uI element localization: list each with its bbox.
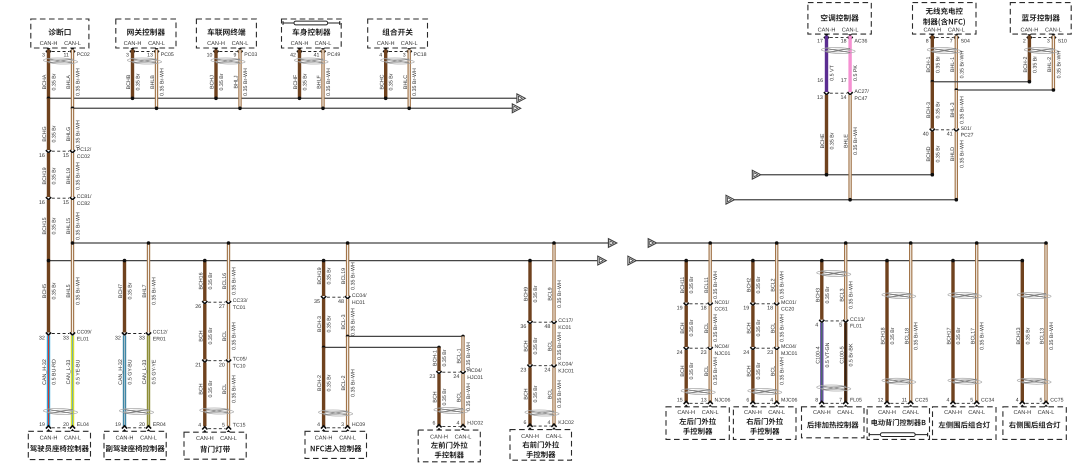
svg-text:0.35 Br: 0.35 Br: [689, 276, 695, 293]
svg-text:0.35 Br-WH: 0.35 Br-WH: [243, 68, 249, 96]
wire CAN-H bus (mid-right): [636, 260, 1022, 262]
label BHLB 0.35 Br-WH: [150, 68, 165, 96]
label BCL 0.35 Br-WH: [770, 357, 785, 385]
svg-text:7: 7: [950, 39, 953, 45]
svg-text:41: 41: [314, 53, 320, 59]
svg-text:BCH15: BCH15: [42, 217, 48, 234]
label BHLF 0.35 Br-WH: [317, 68, 332, 96]
svg-text:KJC02: KJC02: [558, 420, 574, 426]
connector NC01//CC61: [677, 300, 730, 313]
svg-text:5: 5: [222, 423, 225, 429]
junction BHLE/bus: [848, 198, 852, 202]
svg-text:4: 4: [317, 422, 320, 428]
svg-text:0.35 Br: 0.35 Br: [825, 286, 831, 303]
svg-text:5: 5: [1040, 397, 1043, 403]
wire BCH (MC): [751, 306, 754, 347]
svg-text:PC18: PC18: [414, 52, 427, 58]
svg-text:CAN-L: CAN-L: [948, 27, 965, 33]
wire BCL (KC): [552, 324, 555, 365]
svg-text:CAN-H: CAN-H: [196, 436, 214, 442]
wire BCH (KC): [528, 324, 531, 365]
wire BCH-2: [322, 347, 325, 426]
svg-text:0.35 Br-WH: 0.35 Br-WH: [326, 68, 332, 96]
svg-text:0.35 Br: 0.35 Br: [533, 337, 539, 354]
svg-text:CAN_L-33: CAN_L-33: [66, 360, 72, 385]
svg-text:BCH: BCH: [680, 322, 686, 333]
label BHL19 0.35 Br-WH: [66, 162, 81, 190]
wire BCH-3: [322, 299, 325, 347]
svg-text:4: 4: [379, 53, 382, 59]
svg-text:CAN-H: CAN-H: [315, 435, 333, 441]
wire BCHJ: [214, 50, 217, 99]
svg-text:TC05/: TC05/: [233, 357, 248, 363]
twisted pair above FL05: [817, 385, 851, 391]
label BHL7 0.35 Br-WH: [142, 277, 157, 305]
svg-text:0.35 Br-WH: 0.35 Br-WH: [76, 212, 82, 240]
wire BHL-3 (S): [955, 90, 958, 129]
box R1 左后门外拉手控制器: [666, 407, 729, 440]
wire BCH-1: [437, 347, 440, 371]
wire BCHF: [298, 50, 301, 99]
box U6 空调控制器: [808, 3, 871, 34]
svg-text:CAN-H: CAN-H: [377, 41, 395, 47]
svg-text:CAN-H: CAN-H: [744, 410, 762, 416]
svg-text:BCHG: BCHG: [42, 126, 48, 141]
connector PC12//CC02: [39, 147, 92, 160]
label BCH9 0.35 Br: [524, 285, 539, 302]
label BCH 0.35 Br: [198, 327, 213, 344]
label BCHG 0.35 Br: [42, 125, 57, 142]
wire BHL19: [71, 153, 74, 197]
svg-text:3: 3: [403, 53, 406, 59]
svg-text:0.35 Br: 0.35 Br: [533, 285, 539, 302]
svg-text:0.35 Br-WH: 0.35 Br-WH: [713, 314, 719, 342]
svg-text:MJC06: MJC06: [781, 397, 798, 403]
svg-text:6: 6: [433, 421, 436, 427]
svg-text:13: 13: [147, 53, 153, 59]
svg-text:0.35 Br: 0.35 Br: [52, 217, 58, 234]
connector AC27//PC47: [817, 89, 869, 102]
label BCH-3 0.35 Br: [926, 101, 941, 118]
junction BCL17/bus: [975, 241, 979, 245]
connector KJC02: [524, 420, 574, 429]
junction BCHC/CAN-H bus: [384, 97, 388, 101]
svg-text:23: 23: [767, 350, 773, 356]
svg-text:0.35 Br: 0.35 Br: [327, 374, 333, 391]
svg-text:BCL18: BCL18: [904, 328, 910, 344]
twisted pair below bus CC25: [882, 293, 916, 299]
junction BCHB/CAN-H bus: [131, 97, 135, 101]
label BCH-1 0.35 Br: [926, 56, 941, 73]
twisted pair at PC49: [294, 58, 328, 64]
wire BCH19: [47, 153, 50, 197]
junction BCH9/bus: [528, 259, 532, 263]
svg-text:BCH19: BCH19: [42, 167, 48, 184]
box B6 右前门外拉手控制器: [510, 430, 572, 461]
svg-text:BCL3: BCL3: [839, 288, 845, 301]
svg-text:BCL9: BCL9: [548, 287, 554, 300]
svg-text:23: 23: [429, 374, 435, 380]
svg-text:EL01: EL01: [77, 336, 89, 342]
svg-text:CAN-L: CAN-L: [842, 27, 859, 33]
svg-text:24: 24: [677, 350, 683, 356]
label BCL-2 0.35 Br-WH: [341, 369, 356, 397]
label BHLE 0.35 Br-WH: [844, 127, 859, 155]
connector ER04: [115, 422, 166, 431]
wire BCH-3 (S): [931, 82, 934, 129]
svg-text:0.5 BU-RD: 0.5 BU-RD: [52, 359, 58, 385]
svg-text:CAN-L: CAN-L: [64, 41, 81, 47]
svg-text:CAN-H: CAN-H: [207, 41, 225, 47]
svg-text:BCL: BCL: [548, 389, 554, 399]
wire BCHA: [47, 50, 50, 99]
wire BCHC: [384, 50, 387, 99]
svg-text:CAN-H: CAN-H: [677, 410, 695, 416]
svg-text:9: 9: [234, 53, 237, 59]
label CAN_H-32 0.5 BU-RD: [42, 359, 57, 385]
connector MJC06: [746, 397, 797, 406]
svg-text:ER04: ER04: [153, 422, 166, 428]
svg-text:0.35 Br-WH: 0.35 Br-WH: [713, 271, 719, 299]
label BHL5 0.35 Br-WH: [66, 277, 81, 305]
svg-text:20: 20: [63, 422, 69, 428]
svg-text:0.35 Br-WH: 0.35 Br-WH: [980, 322, 986, 350]
svg-text:24: 24: [453, 374, 459, 380]
svg-text:0.35 Br: 0.35 Br: [389, 73, 395, 90]
svg-text:0.35 Br-WH: 0.35 Br-WH: [1049, 322, 1055, 350]
svg-text:BHLG: BHLG: [66, 127, 72, 141]
box B4 NFC进入控制器: [305, 431, 367, 458]
svg-text:CAN-L: CAN-L: [232, 41, 249, 47]
svg-text:0.35 Br-WH: 0.35 Br-WH: [76, 68, 82, 96]
svg-text:CAN-H: CAN-H: [1021, 27, 1039, 33]
connector HC09: [317, 422, 365, 431]
svg-text:AC36: AC36: [854, 38, 867, 44]
svg-text:PC12/: PC12/: [77, 147, 92, 153]
svg-text:BCH-3: BCH-3: [317, 316, 323, 332]
svg-text:0.35 Br-WH: 0.35 Br-WH: [914, 322, 920, 350]
svg-text:4: 4: [815, 323, 818, 329]
twisted pair at S10: [1024, 48, 1058, 54]
label BHLA 0.35 Br-WH: [66, 68, 81, 96]
label CAN_L-33 0.5 GY-YE: [142, 359, 157, 384]
svg-text:5: 5: [839, 323, 842, 329]
wire BCL (HJC): [461, 374, 464, 426]
junction BCHJ/CAN-H bus: [214, 97, 218, 101]
wire C100-4 (VT-GN): [820, 323, 823, 402]
svg-text:0.35 Br: 0.35 Br: [327, 267, 333, 284]
svg-text:BCL17: BCL17: [970, 328, 976, 344]
wire CAN-H bus (right-top): [761, 174, 933, 176]
wire BHL-1 (S): [955, 36, 958, 90]
svg-text:CAN-L: CAN-L: [1045, 27, 1062, 33]
svg-text:CAN-L: CAN-L: [702, 410, 719, 416]
box U3 车联网终端: [196, 19, 256, 48]
svg-text:BHL-3: BHL-3: [950, 102, 956, 117]
svg-text:0.35 Br: 0.35 Br: [890, 327, 896, 344]
svg-text:NC01/: NC01/: [715, 300, 730, 306]
label 16 0.5 VT: [817, 64, 835, 84]
svg-text:0.35 Br-WH: 0.35 Br-WH: [412, 68, 418, 96]
svg-text:BCL-3: BCL-3: [341, 314, 347, 329]
svg-text:35: 35: [314, 299, 320, 305]
box R6 右侧围后组合灯: [1003, 407, 1066, 440]
wire BCL (NJC): [709, 350, 712, 402]
label BCH 0.35 Br: [680, 362, 695, 379]
svg-text:CAN-H: CAN-H: [813, 410, 831, 416]
svg-text:0.35 Br: 0.35 Br: [208, 272, 214, 289]
svg-text:PC49: PC49: [327, 52, 340, 58]
svg-text:32: 32: [115, 335, 121, 341]
box U8 蓝牙控制器: [1010, 3, 1071, 34]
junction BCH13/bus: [1021, 259, 1025, 263]
svg-text:0.35 Br-WH: 0.35 Br-WH: [780, 271, 786, 299]
junction BCH17/bus: [951, 259, 955, 263]
svg-text:PC05: PC05: [161, 52, 174, 58]
connector CC13//FL01: [815, 317, 865, 330]
svg-text:16: 16: [817, 78, 823, 84]
svg-text:BCL: BCL: [548, 341, 554, 351]
svg-text:BCHF: BCHF: [293, 74, 299, 89]
label BCH3 0.35 Br: [815, 286, 830, 303]
svg-text:PC27: PC27: [961, 133, 974, 139]
label BCH13 0.35 Br: [1016, 327, 1031, 344]
wire BCH2: [751, 261, 754, 303]
wire BCHD: [931, 132, 934, 175]
svg-text:15: 15: [63, 153, 69, 159]
junction BCH18/bus: [885, 259, 889, 263]
label CAN_H-32 0.5 GY-BU: [118, 359, 133, 385]
svg-text:21: 21: [195, 363, 201, 369]
wire BCH (NJC): [685, 350, 688, 402]
svg-text:0.35 Br-WH: 0.35 Br-WH: [780, 357, 786, 385]
svg-text:BCH16: BCH16: [198, 272, 204, 289]
svg-text:13: 13: [817, 95, 823, 101]
svg-text:0.35 Br: 0.35 Br: [219, 73, 225, 90]
svg-text:CAN-L: CAN-L: [546, 434, 563, 440]
svg-text:0.35 Br: 0.35 Br: [935, 56, 941, 73]
svg-text:0.35 Br-WH: 0.35 Br-WH: [780, 314, 786, 342]
svg-text:0.35 Br: 0.35 Br: [136, 73, 142, 90]
wire BCH (HJC): [437, 374, 440, 426]
svg-text:40: 40: [923, 132, 929, 138]
svg-text:16: 16: [39, 200, 45, 206]
wire BCH7: [123, 261, 126, 333]
svg-text:0.5 PK: 0.5 PK: [853, 65, 859, 81]
junction BHL7/bus: [147, 241, 151, 245]
connector PC03: [207, 48, 258, 59]
svg-text:5: 5: [970, 397, 973, 403]
label C100-4 0.5 VT-GN: [815, 342, 830, 367]
svg-text:PC03: PC03: [244, 52, 257, 58]
svg-text:BCH17: BCH17: [947, 327, 953, 344]
off-page arrow CAN-H right-top: [752, 170, 760, 179]
svg-text:BHL-1: BHL-1: [950, 57, 956, 72]
wire link CAN-L to S10: [956, 89, 1053, 91]
label BCH18 0.35 Br: [881, 327, 896, 344]
svg-text:KC04/: KC04/: [558, 362, 573, 368]
wire BCL (TC): [227, 304, 230, 360]
twisted pair above TC15: [200, 408, 234, 414]
svg-text:CC34: CC34: [981, 397, 994, 403]
off-page arrow CAN-L mid-right: [648, 239, 656, 248]
label BCL 0.35 Br-WH: [222, 322, 237, 350]
wire BCL-3: [346, 299, 349, 336]
svg-text:TC01: TC01: [233, 305, 246, 311]
off-page arrow CAN-L right-top: [726, 195, 734, 204]
off-page arrow CAN-L top: [512, 104, 520, 113]
twisted pair at PC02: [43, 58, 77, 64]
svg-text:CAN-L: CAN-L: [902, 410, 919, 416]
wire BCL13: [1044, 243, 1047, 402]
junction BCH-3 branch: [322, 346, 326, 350]
junction BCL-3 branch: [346, 335, 350, 339]
svg-text:S10: S10: [1058, 38, 1067, 44]
svg-text:0.35 Br-WH: 0.35 Br-WH: [557, 332, 563, 360]
connector CC34: [947, 397, 995, 406]
svg-text:0.35 Br-WH: 0.35 Br-WH: [152, 277, 158, 305]
terminating resistor R1 in 车身控制器: [283, 21, 340, 25]
svg-text:CAN-H: CAN-H: [1013, 410, 1031, 416]
svg-text:4: 4: [1016, 397, 1019, 403]
connector MC04//MJC01: [743, 344, 797, 357]
svg-text:13: 13: [701, 397, 707, 403]
wire CAN-L bus (right-top): [734, 199, 956, 201]
box U2 网关控制器: [116, 19, 176, 48]
connector EL04: [39, 422, 89, 431]
svg-text:0.35 Br-WH: 0.35 Br-WH: [466, 342, 472, 370]
wire BCL (TC15): [227, 363, 230, 427]
junction BCH-2/link: [1028, 80, 1032, 84]
svg-text:CC75: CC75: [1050, 397, 1063, 403]
connector PC18: [379, 48, 426, 59]
label BHL-3 0.35 Br-WH: [950, 96, 965, 124]
junction BHLD/bus: [955, 198, 959, 202]
wire BHLC: [408, 50, 411, 109]
svg-text:BCHA: BCHA: [42, 74, 48, 89]
svg-text:TC15: TC15: [233, 423, 246, 429]
twisted pair at PC03: [211, 58, 245, 64]
wire BCH16: [203, 261, 206, 301]
off-page arrow CAN-H mid-left: [598, 256, 606, 265]
twisted pair above CC25: [882, 378, 916, 384]
box B3 背门灯带: [184, 432, 246, 459]
svg-text:14: 14: [841, 95, 847, 101]
svg-text:BCL: BCL: [704, 323, 710, 333]
wire BCH-1 (S): [931, 36, 934, 82]
wire BHLB: [155, 50, 158, 109]
svg-text:0.35 Br-WH: 0.35 Br-WH: [351, 369, 357, 397]
twisted pair at PC05: [127, 58, 161, 64]
wire BCHG: [47, 98, 50, 150]
wire BCL-2: [346, 336, 349, 426]
wire BCL9: [552, 243, 555, 321]
label BCL9 0.35 Br-WH: [548, 280, 563, 308]
label BCH11 0.35 Br: [680, 276, 695, 293]
label BCL 0.35 Br-WH: [704, 314, 719, 342]
svg-text:0.5 YE-BU: 0.5 YE-BU: [76, 359, 82, 384]
junction BHLA/CAN-L bus: [71, 107, 75, 111]
twisted pair below bus FL: [817, 271, 851, 277]
svg-text:33: 33: [63, 335, 69, 341]
svg-text:18: 18: [767, 306, 773, 312]
wire BHLG: [71, 108, 74, 150]
svg-text:0.35 Br: 0.35 Br: [442, 349, 448, 366]
wire BCL2: [775, 243, 778, 303]
svg-text:EL04: EL04: [77, 422, 89, 428]
svg-text:CAN-H: CAN-H: [923, 27, 941, 33]
svg-text:18: 18: [701, 306, 707, 312]
junction BCL11/bus: [708, 241, 712, 245]
svg-text:BCHC: BCHC: [379, 74, 385, 89]
svg-text:BCH-2: BCH-2: [317, 375, 323, 391]
box R5 左侧围后组合灯: [933, 407, 997, 440]
label BCH19 0.35 Br: [42, 167, 57, 184]
svg-text:BCH: BCH: [433, 391, 439, 402]
svg-text:CAN-L: CAN-L: [968, 410, 985, 416]
svg-text:15: 15: [677, 397, 683, 403]
svg-text:C100-5: C100-5: [839, 346, 845, 363]
label BCH 0.35 Br: [524, 385, 539, 402]
svg-text:BCHB: BCHB: [126, 74, 132, 89]
box U5 组合开关: [368, 19, 428, 48]
svg-text:19: 19: [677, 306, 683, 312]
wire BCL (KJC): [552, 368, 555, 427]
svg-text:BHLD: BHLD: [950, 147, 956, 161]
svg-text:BHL5: BHL5: [66, 284, 72, 297]
connector PC49: [290, 48, 340, 59]
wire link CAN-H to S10: [932, 81, 1029, 83]
svg-text:BCHJ: BCHJ: [210, 75, 216, 89]
junction BCL18/bus: [909, 241, 913, 245]
svg-text:CAN-H: CAN-H: [818, 27, 836, 33]
label BCL-3 0.35 Br-WH: [341, 308, 356, 336]
svg-text:CAN-H: CAN-H: [40, 435, 58, 441]
label BHLJ 0.35 Br-WH: [234, 68, 249, 96]
svg-text:BCL: BCL: [770, 366, 776, 376]
label BCL16 0.35 Br-WH: [222, 267, 237, 295]
label CAN_L-33 0.5 YE-BU: [66, 359, 81, 384]
svg-text:24: 24: [544, 368, 550, 374]
wire C100-5 (Br-BK): [844, 323, 847, 402]
svg-text:BCH13: BCH13: [1016, 327, 1022, 344]
label BCH 0.35 Br: [680, 319, 695, 336]
svg-text:0.5 GY-BU: 0.5 GY-BU: [128, 359, 134, 384]
svg-text:0.35 Br-WH: 0.35 Br-WH: [557, 280, 563, 308]
svg-text:BCL: BCL: [704, 366, 710, 376]
label BCL3 0.35 Br-WH: [839, 281, 854, 309]
twisted pair at PC18: [381, 58, 415, 64]
svg-text:0.35 Br: 0.35 Br: [956, 327, 962, 344]
box B1 驾驶员座椅控制器: [28, 431, 90, 459]
junction BCH19/bus: [322, 259, 326, 263]
svg-text:MC01/: MC01/: [781, 300, 797, 306]
svg-text:CAN_H-32: CAN_H-32: [118, 359, 124, 385]
junction BHLF/CAN-L bus: [321, 107, 325, 111]
junction BHLJ/CAN-L bus: [238, 107, 242, 111]
svg-text:0.35 Br: 0.35 Br: [1032, 56, 1038, 73]
junction BCH2/bus: [751, 259, 755, 263]
svg-text:0.35 Br-WH: 0.35 Br-WH: [1056, 50, 1062, 78]
svg-text:0.35 Br: 0.35 Br: [52, 125, 58, 142]
label BCL 0.35 Br-WH: [222, 375, 237, 403]
svg-text:TC10: TC10: [233, 364, 246, 370]
connector AC36: [817, 34, 867, 45]
svg-text:BCL-2: BCL-2: [341, 375, 347, 390]
svg-text:0.35 Br: 0.35 Br: [128, 282, 134, 299]
svg-text:41: 41: [947, 132, 953, 138]
twisted pair above ER04: [119, 409, 153, 415]
